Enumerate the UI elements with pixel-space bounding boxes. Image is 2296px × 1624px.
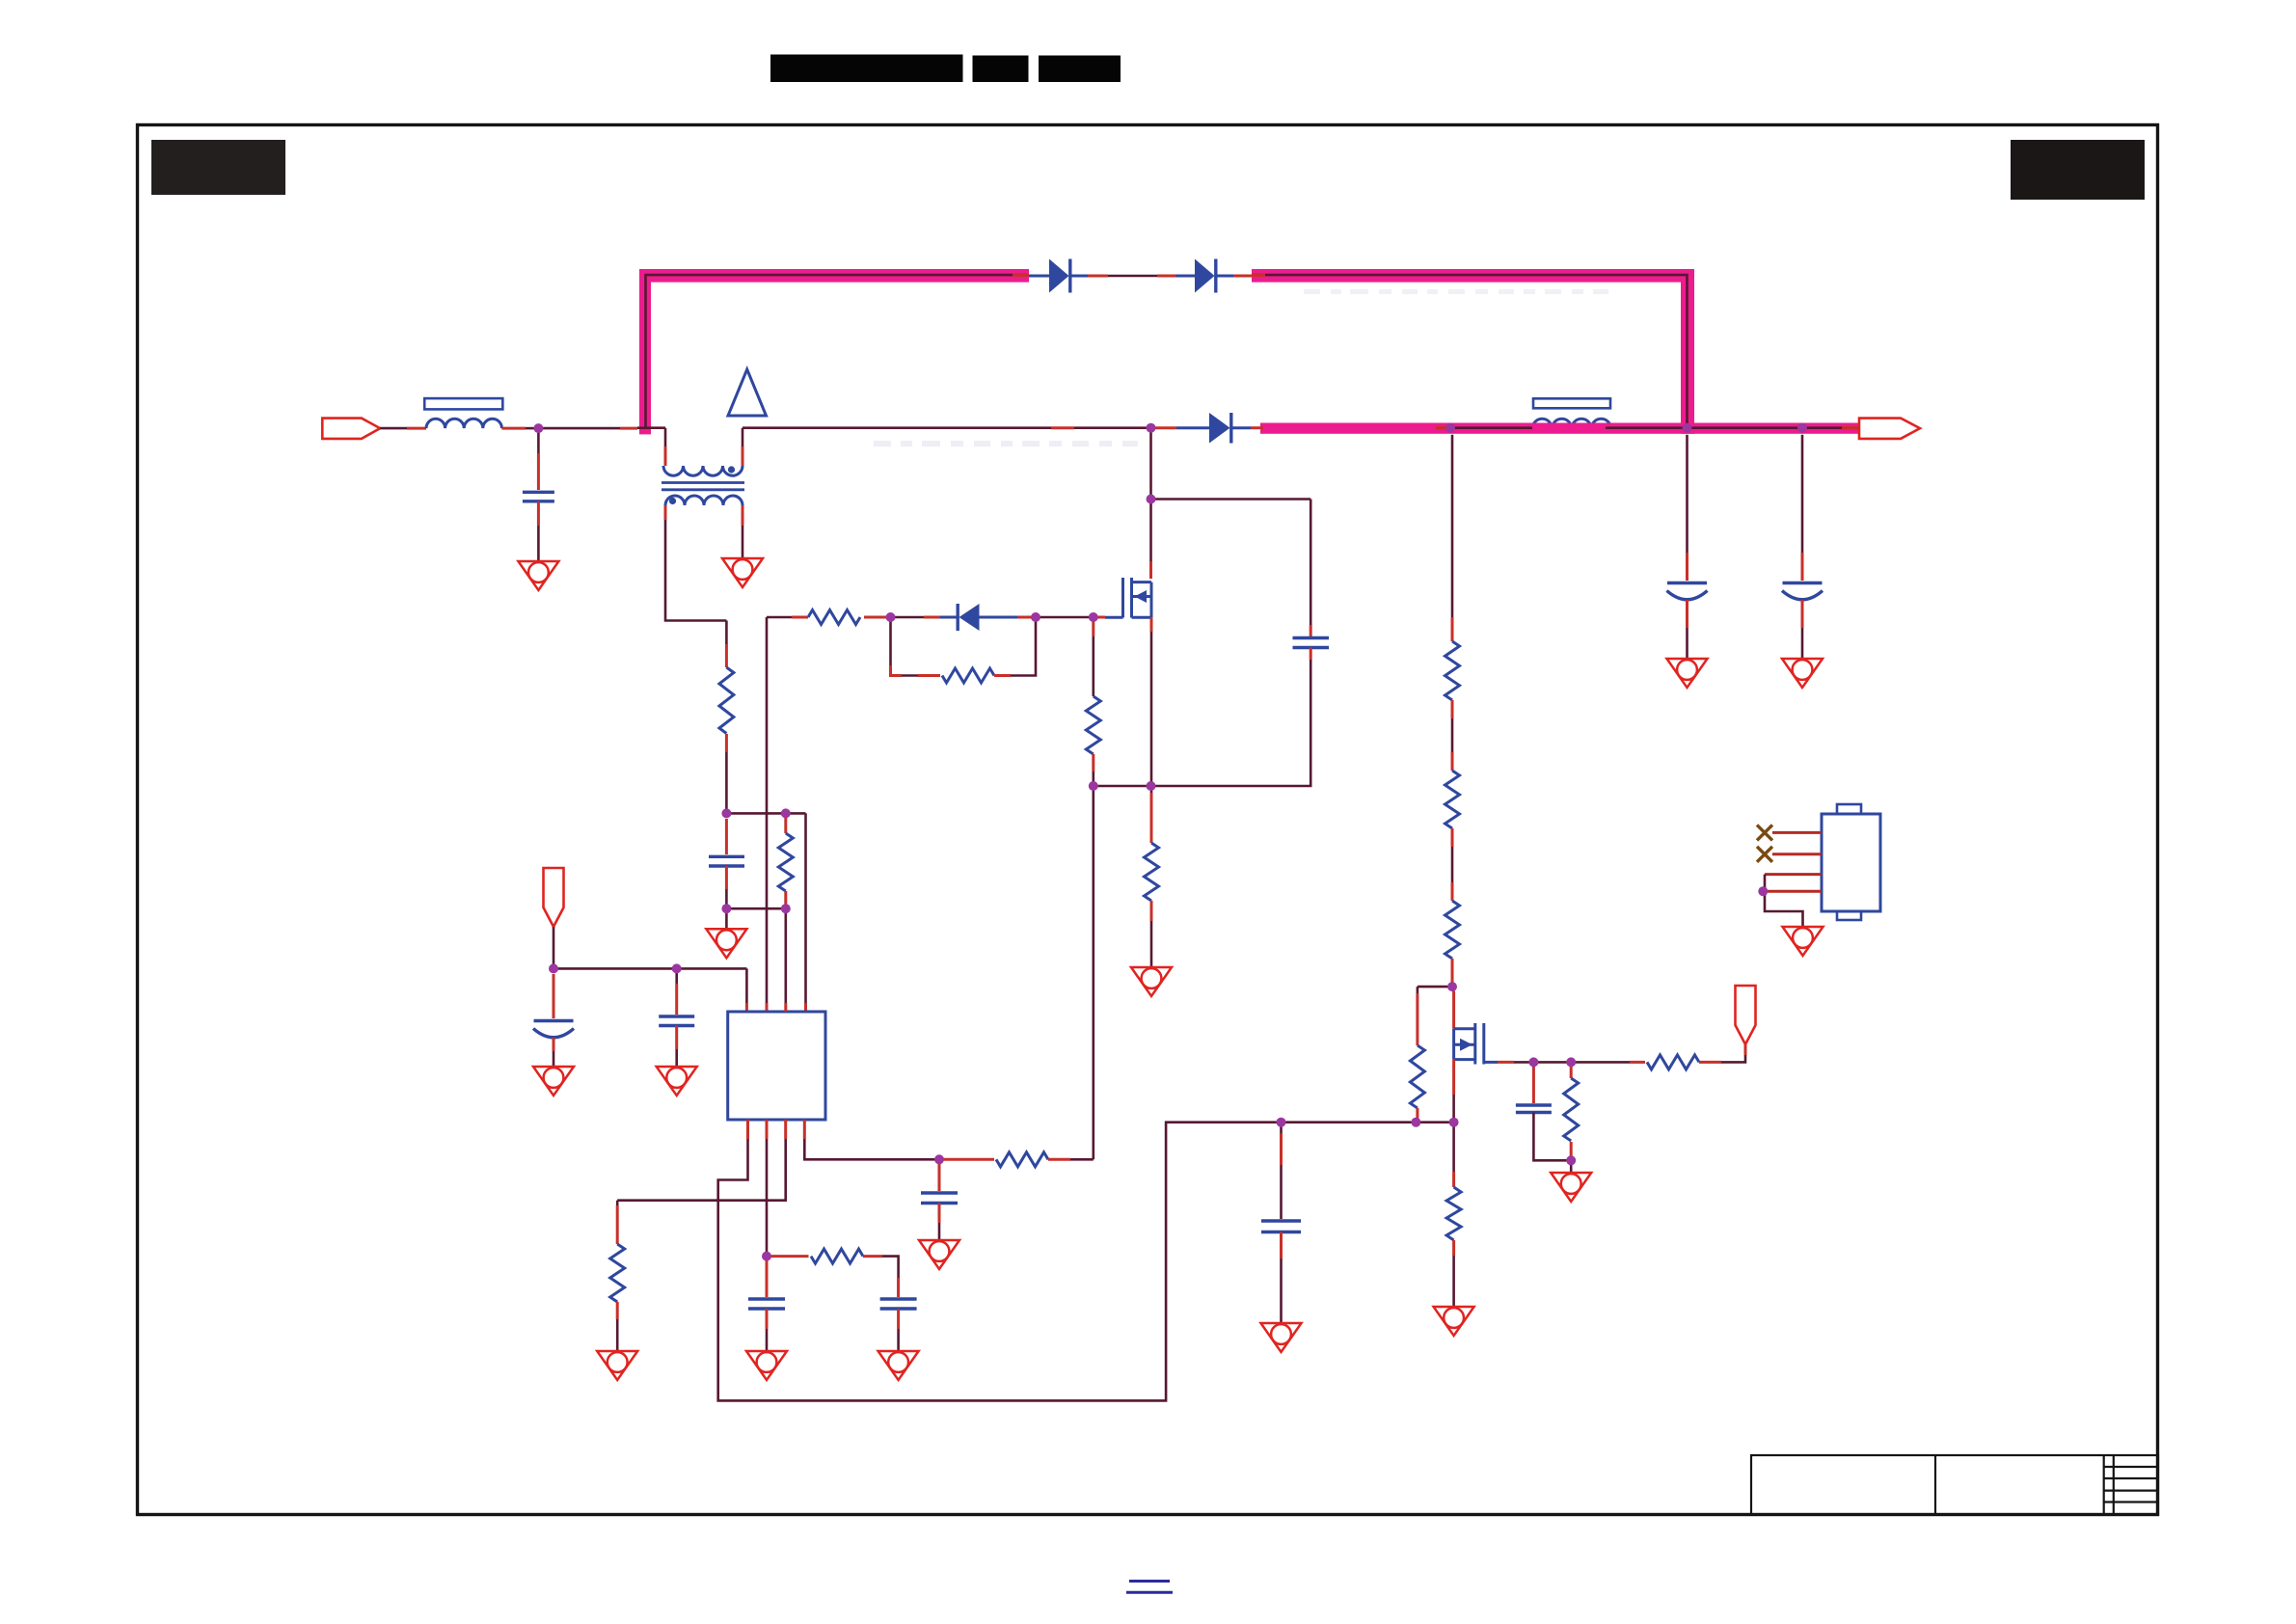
- capacitor C101: [523, 491, 554, 494]
- ground under R113: [597, 1351, 637, 1380]
- resistor R117: [939, 1158, 994, 1161]
- connector pin1 wire: [1772, 831, 1822, 834]
- capacitor C101 stem: [537, 428, 540, 453]
- capacitor C103 lower stem: [675, 1026, 678, 1050]
- ground under C108: [746, 1351, 787, 1380]
- diode D101: [1049, 259, 1069, 293]
- IC pin5 net: [746, 1120, 749, 1139]
- wire gate node to D104 node: [1040, 616, 1094, 619]
- capacitor C108: [766, 1257, 769, 1297]
- node VCC rail right: [672, 963, 682, 973]
- transformer T101 primary left pin: [664, 428, 667, 447]
- main line transformer to Q101 drain node: [743, 426, 1051, 429]
- node connector pin4 junction: [1758, 886, 1768, 896]
- node Q101 gate: [1089, 612, 1098, 622]
- snubber rail from drain node: [1151, 498, 1311, 501]
- capacitor C103 stem: [675, 968, 678, 984]
- wire inside top-left pink bus: [646, 275, 1013, 428]
- ground under C110: [1667, 659, 1708, 688]
- IC U101 PFC controller: [728, 1012, 825, 1120]
- ground under T101 secondary: [722, 558, 763, 587]
- node output bus C110 tap: [1683, 423, 1692, 433]
- capacitor C106: [1293, 636, 1330, 639]
- wire Q101 drain from main node: [1149, 428, 1152, 500]
- wire red D102 to bus: [1233, 275, 1252, 278]
- transformer T101 secondary right pin to ground: [742, 505, 744, 526]
- ground under C111: [1782, 659, 1823, 688]
- wire aux to IC pin4: [804, 813, 807, 1003]
- title block: [1751, 1455, 2158, 1515]
- input port ACIN: [322, 419, 380, 439]
- wire to aux ground: [725, 908, 728, 929]
- node aux ground rail right: [781, 904, 791, 913]
- wire VCC rail to IC pin1: [745, 968, 748, 1003]
- ground gate RC: [1551, 1173, 1591, 1202]
- capacitor C102 bulk stem: [553, 974, 555, 1018]
- wire long vertical gate drive from IC pin2: [766, 617, 769, 1003]
- IC pin7 net: [784, 1120, 787, 1139]
- transformer T101 secondary left pin down: [664, 505, 667, 520]
- node gate RC right: [1031, 612, 1040, 622]
- warning triangle symbol: [728, 369, 767, 416]
- resistor R114: [767, 1255, 809, 1258]
- capacitor C104 aux stem: [725, 819, 728, 854]
- highlighted net bus segment top horizontal right: [1252, 269, 1694, 283]
- IC pin3 stub from aux bleed node: [784, 908, 787, 1003]
- wire port to L101: [380, 427, 407, 430]
- ground under C109: [878, 1351, 919, 1380]
- transistor Q102 MOSFET: [1454, 1023, 1498, 1065]
- node aux ground rail left: [721, 904, 731, 913]
- node pin5 rail R123 tap: [1411, 1118, 1420, 1127]
- node pulldown bottom: [1089, 781, 1098, 791]
- capacitor C103: [659, 1015, 694, 1017]
- wire Q102 source down: [1452, 1060, 1455, 1095]
- resistor R124: [1446, 1187, 1461, 1240]
- ground under C102: [533, 1067, 574, 1096]
- node output bus divider tap: [1445, 423, 1455, 433]
- connector CN101: [1822, 814, 1880, 911]
- VCC port P101: [544, 868, 564, 927]
- resistor R126: [1647, 1055, 1699, 1069]
- wire inside top-right pink bus: [1265, 275, 1688, 428]
- wire Q101 gate red: [1094, 616, 1105, 619]
- capacitor C102 lower stem: [553, 1038, 555, 1051]
- wire divider node to Q102 drain: [1452, 987, 1454, 1029]
- inductor L102 coils under bus: [1532, 419, 1611, 428]
- node VCC rail left: [549, 963, 558, 973]
- transformer T101 primary right pin: [742, 447, 744, 466]
- aux rail node row: [726, 812, 805, 815]
- resistor R121: [1445, 771, 1460, 828]
- resistor R105 gate series: [864, 616, 891, 619]
- transformer T101 primary winding: [663, 466, 743, 475]
- wire D104 to R node: [924, 616, 940, 619]
- resistor R111 current sense: [1150, 786, 1153, 793]
- wire VCC port stem: [553, 927, 555, 968]
- resistor R109 gate pulldown upper: [1092, 617, 1094, 636]
- node aux rail right: [781, 808, 791, 818]
- IC pin6 net: [766, 1120, 769, 1139]
- wire gate pulldown node down to R117 row: [1093, 786, 1095, 1159]
- node divider output: [1447, 982, 1457, 991]
- resistor R122: [1445, 901, 1460, 959]
- wire red into D102: [1157, 275, 1176, 278]
- node pin5 rail C112 tap: [1277, 1118, 1286, 1127]
- diode D102 lead left: [1176, 275, 1196, 278]
- node snubber junction: [1147, 495, 1156, 504]
- capacitor C102 polarized: [534, 1019, 574, 1022]
- node A wire to transformer: [538, 427, 620, 430]
- capacitor C113 gate stem: [1532, 1062, 1535, 1103]
- highlighted net bus segment right vertical: [1681, 269, 1694, 434]
- VCC port P102: [1736, 986, 1756, 1044]
- capacitor C106 lower stem: [1310, 648, 1312, 661]
- capacitor C111 polarized: [1783, 582, 1823, 584]
- transformer T101 secondary polarity dot: [669, 498, 676, 504]
- connector pin2 wire: [1772, 853, 1822, 855]
- node pin6 filter: [762, 1252, 771, 1261]
- resistor R120: [1445, 641, 1460, 700]
- resistor R103 aux supply: [725, 621, 728, 645]
- ground under C112: [1261, 1323, 1302, 1352]
- ground under R111: [1131, 967, 1172, 996]
- shield box of L102: [1533, 398, 1610, 408]
- capacitor C101 lower stem: [537, 501, 540, 526]
- transformer T101 secondary winding: [665, 496, 743, 505]
- capacitor C106 snubber stem: [1310, 500, 1312, 626]
- node gate RC left: [886, 612, 896, 622]
- diode D101 lead left: [1029, 275, 1049, 278]
- redacted label block top-left: [151, 140, 285, 195]
- capacitor C110 polarized: [1667, 582, 1707, 584]
- erased hyperlink lines bottom center: [1129, 1580, 1170, 1583]
- Q102 gate line: [1498, 1061, 1514, 1064]
- output port: [1859, 419, 1920, 439]
- wire divider node to R123: [1418, 986, 1452, 988]
- frame border: [138, 125, 2158, 1515]
- ground aux: [706, 929, 746, 958]
- transistor Q101 MOSFET: [1105, 578, 1151, 618]
- highlighted net bus segment top-left vertical: [639, 269, 651, 434]
- diode D103 boost: [1176, 426, 1209, 429]
- wire Q101 source down: [1150, 617, 1153, 632]
- resistor R123: [1410, 1045, 1424, 1108]
- node Q101 source rail: [1147, 781, 1156, 791]
- wire red tip of top-left bus: [1013, 273, 1029, 277]
- capacitor C111 lower stem: [1801, 600, 1804, 628]
- transformer T101 primary polarity dot: [728, 466, 735, 473]
- node Q102 gate C113 tap: [1528, 1057, 1538, 1067]
- connector pin4 wire: [1765, 890, 1822, 893]
- ghost text remnants under top bus: [1304, 289, 1608, 294]
- ground connector: [1783, 927, 1823, 956]
- capacitor C110 stem from bus: [1686, 435, 1688, 553]
- diode D102: [1195, 259, 1215, 293]
- node input filter junction: [533, 423, 543, 433]
- capacitor C111 stem from bus: [1801, 435, 1804, 553]
- diode D104 gate: [980, 616, 1018, 619]
- transformer T101 core: [662, 483, 744, 490]
- capacitor C104: [709, 855, 744, 858]
- aux ground rail row: [726, 907, 785, 910]
- resistor R113: [616, 1201, 619, 1205]
- no-connect X pin1: [1757, 825, 1772, 840]
- wire inside output bus right: [1606, 426, 1842, 429]
- VCC rail: [554, 967, 746, 970]
- wire source rail to gate pulldown: [1094, 785, 1151, 788]
- highlighted net bus segment top horizontal left: [639, 269, 1029, 283]
- ground under R124: [1434, 1307, 1474, 1336]
- wire to gate RC ground: [1570, 1160, 1573, 1173]
- ground under C107: [919, 1240, 959, 1269]
- node Q102 gate R125 tap: [1566, 1057, 1576, 1067]
- node output bus C111 tap: [1797, 423, 1807, 433]
- connector pin3 wire: [1765, 873, 1822, 876]
- resistor R106 parallel loop: [889, 617, 892, 665]
- redacted label block top-right: [2011, 140, 2145, 200]
- capacitor C107: [938, 1159, 941, 1191]
- resistor R104 aux bleed: [784, 813, 787, 833]
- shield box of L101: [424, 398, 502, 409]
- wire node to D103: [1151, 426, 1177, 429]
- wire red tip of top-right bus: [1252, 273, 1265, 277]
- wire inside output bus left: [1436, 426, 1450, 429]
- capacitor C110 lower stem: [1686, 600, 1688, 628]
- ground under C103: [657, 1067, 697, 1096]
- no-connect X pin2: [1757, 847, 1772, 862]
- node pin5 rail Q102 source: [1449, 1118, 1459, 1127]
- ghost text remnants under main line: [874, 441, 1138, 447]
- wire D101 to D102: [1108, 275, 1157, 278]
- wire red D101 to D102: [1088, 275, 1108, 278]
- inductor L101: [426, 419, 501, 428]
- node gate RC ground junction: [1566, 1155, 1576, 1165]
- capacitor C109: [897, 1278, 900, 1297]
- node pin8 filter: [934, 1154, 944, 1164]
- IC pin8 net: [803, 1120, 806, 1139]
- ground under C101: [518, 561, 558, 590]
- capacitor C112 on pin5 rail: [1280, 1123, 1283, 1133]
- divider chain from output bus: [1451, 435, 1454, 617]
- capacitor C104 lower stem: [725, 866, 728, 889]
- connector ground return wire: [1765, 875, 1803, 927]
- resistor R125 gate: [1570, 1062, 1573, 1078]
- redacted title text block top-center: [770, 55, 963, 83]
- node Q101 drain junction: [1147, 423, 1156, 433]
- wire red D103 to output bus: [1251, 426, 1263, 429]
- wire L101 to node A: [501, 427, 526, 430]
- capacitor C113: [1516, 1103, 1552, 1106]
- highlighted net bus segment output rail: [1260, 423, 1859, 434]
- node aux rail left: [721, 808, 731, 818]
